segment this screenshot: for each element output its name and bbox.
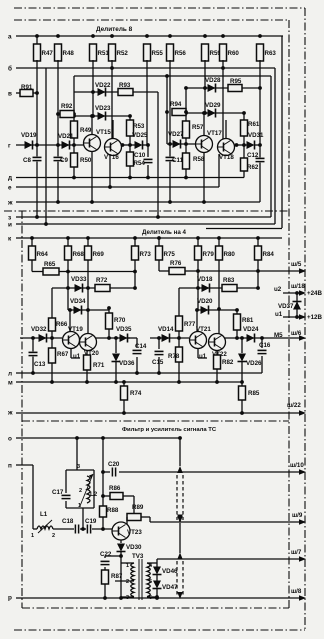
resistor R60 <box>220 44 227 61</box>
svg-text:VD21: VD21 <box>58 133 74 140</box>
diode VD24 <box>247 334 255 343</box>
diode VD32 <box>39 334 47 343</box>
bus ж horizontal <box>16 201 260 203</box>
svg-text:R70: R70 <box>114 317 126 324</box>
wire column x205 (R59 leg) <box>204 60 206 113</box>
diode VD21 <box>62 141 70 150</box>
inner dash-dot enclosure top <box>14 19 289 21</box>
svg-text:R52: R52 <box>117 50 129 57</box>
resistor R53 <box>127 120 134 136</box>
svg-text:VT17: VT17 <box>207 130 222 137</box>
svg-text:u2: u2 <box>274 286 282 293</box>
row base wire cell B <box>167 143 196 145</box>
svg-text:R47: R47 <box>42 50 54 57</box>
transistor VT22 <box>209 334 226 351</box>
resistor R73 <box>134 238 136 246</box>
svg-text:2: 2 <box>52 533 55 539</box>
svg-text:R80: R80 <box>224 251 236 258</box>
svg-text:R81: R81 <box>242 317 254 324</box>
svg-text:е: е <box>8 184 12 191</box>
svg-text:R65: R65 <box>44 261 56 268</box>
resistor R54 <box>129 145 131 152</box>
resistor R80 <box>218 238 220 246</box>
output u2 +24В line <box>283 292 301 294</box>
resistor R70 <box>108 308 110 313</box>
resistor R57 <box>183 121 190 138</box>
svg-text:VD14: VD14 <box>158 326 174 333</box>
svg-text:R75: R75 <box>164 251 176 258</box>
svg-text:VD27: VD27 <box>168 131 184 138</box>
wire VT17 emitter to ж <box>203 152 205 202</box>
node д x74 <box>72 176 76 180</box>
svg-text:R67: R67 <box>57 351 69 358</box>
resistor R74 <box>123 382 125 386</box>
wire R64 leg to R65 <box>31 260 33 272</box>
resistor R88 <box>100 506 107 517</box>
svg-text:R57: R57 <box>192 124 204 131</box>
diode VD28 <box>208 84 216 93</box>
svg-text:VD19: VD19 <box>21 132 37 139</box>
row VD33/R72 wire <box>52 287 95 289</box>
svg-text:R74: R74 <box>130 390 142 397</box>
wire row y76 to з wrap <box>74 75 271 77</box>
wire column x147 (R55 leg) <box>146 60 148 145</box>
svg-text:R56: R56 <box>175 50 187 57</box>
node bus а junction x=147 <box>145 34 149 38</box>
svg-text:R55: R55 <box>152 50 164 57</box>
svg-text:VD29: VD29 <box>205 102 221 109</box>
wire column x58 (R48 leg to ж) <box>57 60 59 202</box>
resistor R77 <box>178 288 180 316</box>
inner dash-dot enclosure left <box>21 211 23 608</box>
outer dash-dot enclosure top <box>14 7 305 9</box>
mechanical link arrow mid <box>179 523 181 553</box>
output line ш/9 <box>150 521 301 523</box>
svg-text:VT23: VT23 <box>127 529 142 536</box>
resistor R64 <box>31 238 33 246</box>
resistor R50 <box>71 153 78 167</box>
svg-text:VD20: VD20 <box>197 298 213 305</box>
wire R69 leg into VT20 collector <box>87 260 89 334</box>
svg-text:VD36: VD36 <box>119 360 135 367</box>
diode VD34 <box>74 306 82 315</box>
transistor VT23 oscillator <box>112 522 130 540</box>
wire о drop x103 <box>102 438 104 529</box>
svg-text:1: 1 <box>78 503 81 509</box>
capacitor C8 <box>33 156 42 161</box>
svg-text:VD31: VD31 <box>248 132 264 139</box>
diode VD14 <box>162 334 170 343</box>
wire о drop x180 with arrow <box>179 438 181 466</box>
svg-text:VD34: VD34 <box>70 298 86 305</box>
svg-text:з: з <box>8 214 11 221</box>
dashed coupling lines lower <box>176 561 178 595</box>
wire link VD30 to C22 branch <box>105 555 121 557</box>
bus р horizontal to ш/8 <box>16 597 301 599</box>
svg-text:R63: R63 <box>265 50 277 57</box>
wire column x46 <box>45 68 47 224</box>
wire VD35 to C14 <box>128 337 137 339</box>
inductor L1 <box>37 526 53 529</box>
svg-text:C14: C14 <box>135 343 147 350</box>
bus к horizontal (divider 4 input) <box>16 237 282 239</box>
svg-text:ш/10: ш/10 <box>290 462 304 469</box>
TV3 secondary taps <box>147 562 157 564</box>
diode VD33 <box>75 284 83 293</box>
svg-text:и: и <box>8 221 12 228</box>
diode VD26 vertical <box>241 338 243 353</box>
wire б wrap vertical right <box>274 68 276 224</box>
transistor VT17 <box>196 136 213 153</box>
resistor R51 <box>90 44 97 61</box>
wire а wrap vertical right <box>281 36 283 228</box>
node bus к junction x=88 <box>86 236 90 240</box>
svg-text:R69: R69 <box>93 251 105 258</box>
svg-text:R93: R93 <box>119 82 131 89</box>
bus з horizontal <box>16 216 271 218</box>
svg-text:ТV3: ТV3 <box>132 553 144 560</box>
svg-text:VD26: VD26 <box>246 360 262 367</box>
svg-text:п: п <box>8 462 12 469</box>
inner dash-dot enclosure right <box>288 20 290 608</box>
node bus к junction x=32 <box>30 236 34 240</box>
output line ш/5 continuation of R76 row <box>198 270 301 272</box>
node bus а junction x=205 <box>203 34 207 38</box>
wire VT21 emitter <box>197 348 199 358</box>
capacitor C20 <box>111 468 116 477</box>
svg-text:C13: C13 <box>34 361 46 368</box>
diode VD47 vertical <box>153 581 162 589</box>
resistor R52 <box>109 44 116 61</box>
svg-text:VT18: VT18 <box>219 154 234 161</box>
wire а wrap horizontal y228 <box>206 228 282 230</box>
diode VD31 <box>247 141 255 150</box>
bus а horizontal <box>16 35 283 37</box>
resistor R61 <box>241 120 248 136</box>
svg-text:C22: C22 <box>100 551 112 558</box>
svg-text:3: 3 <box>77 464 80 470</box>
diode VD27 <box>173 140 181 149</box>
svg-text:C16: C16 <box>259 342 271 349</box>
node bus а junction x=170 <box>168 34 172 38</box>
svg-text:г: г <box>8 142 11 149</box>
svg-text:ж: ж <box>7 409 13 416</box>
svg-text:u1: u1 <box>275 311 283 318</box>
wire VT16 emitter to е <box>109 154 111 187</box>
node bus а junction x=58 <box>56 34 60 38</box>
wire column x74 (R49/R50 branch) <box>73 76 75 178</box>
svg-text:C9: C9 <box>60 157 68 164</box>
diode VD35 <box>120 334 128 343</box>
resistor R65 <box>43 268 59 275</box>
wire base row y338 left cell D <box>150 337 189 339</box>
svg-text:R88: R88 <box>107 507 119 514</box>
node base x74 <box>72 143 76 147</box>
node г x58 <box>56 143 60 147</box>
svg-text:R50: R50 <box>80 157 92 164</box>
wire ш/7 column <box>156 559 158 563</box>
row VD34 wire <box>68 309 109 311</box>
wire row92 to з link column <box>157 92 159 217</box>
resistor R83 <box>222 285 237 292</box>
svg-text:+24В: +24В <box>307 290 322 297</box>
bus и horizontal <box>16 223 275 225</box>
svg-text:R95: R95 <box>230 78 242 85</box>
resistor R71 <box>86 351 88 355</box>
svg-text:R82: R82 <box>222 359 234 366</box>
resistor R58 <box>183 153 190 169</box>
svg-text:VD28: VD28 <box>205 77 221 84</box>
wire base row right VT20 <box>96 337 130 339</box>
wire column x37 (R47 leg down to з) <box>36 36 38 44</box>
diode VD37 vertical <box>296 293 298 317</box>
wire base row y338 left <box>20 337 62 339</box>
diode VD30 vertical <box>117 544 126 552</box>
diode VD18 <box>202 284 210 293</box>
svg-text:VD35: VD35 <box>116 326 132 333</box>
svg-text:R86: R86 <box>109 485 121 492</box>
outer dash-dot enclosure right <box>304 8 306 630</box>
resistor R86 <box>110 493 123 500</box>
svg-text:ш/18: ш/18 <box>291 283 305 290</box>
svg-text:R61: R61 <box>248 121 260 128</box>
wire VT16 collector <box>112 120 114 139</box>
transistor VT15 <box>84 135 101 152</box>
wire п down to L1 <box>32 465 34 529</box>
svg-text:ш/9: ш/9 <box>292 512 303 519</box>
svg-text:C15: C15 <box>152 359 164 366</box>
bus б horizontal <box>16 67 275 69</box>
svg-text:1: 1 <box>31 533 34 539</box>
svg-text:R94: R94 <box>170 101 182 108</box>
capacitor C10 <box>147 145 149 157</box>
diode VD22 <box>98 88 106 97</box>
wire VT15 emitter to ж <box>91 151 93 202</box>
svg-text:R91: R91 <box>21 84 33 91</box>
resistor R85 <box>241 382 243 386</box>
capacitor C13 <box>32 338 34 373</box>
resistor R55 <box>144 44 151 61</box>
bus ж2 / ш22 output line <box>16 412 300 414</box>
svg-text:в: в <box>8 90 12 97</box>
wire column x93 (R51 leg) <box>92 60 94 116</box>
svg-text:м: м <box>8 379 13 386</box>
wire column x260 (R63 leg) <box>259 60 261 144</box>
svg-text:R54: R54 <box>134 160 146 167</box>
diode VD19 <box>25 141 33 150</box>
svg-text:R49: R49 <box>80 127 92 134</box>
svg-text:VD18: VD18 <box>197 276 213 283</box>
svg-text:VD23: VD23 <box>95 105 111 112</box>
resistor R92 <box>58 113 60 115</box>
wire з wrap vertical right <box>270 76 272 217</box>
capacitor C16 <box>261 338 263 348</box>
svg-text:R79: R79 <box>203 251 215 258</box>
capacitor C11 <box>169 143 171 145</box>
wire VT18 collector <box>225 120 227 139</box>
svg-text:R89: R89 <box>132 504 144 511</box>
row VD18/R83 wire <box>179 287 222 289</box>
bus е horizontal <box>16 186 219 188</box>
svg-text:R72: R72 <box>96 277 108 284</box>
svg-text:R48: R48 <box>63 50 75 57</box>
svg-text:ш/8: ш/8 <box>291 588 302 595</box>
bus п stub <box>16 464 33 466</box>
svg-text:VT15: VT15 <box>96 129 111 136</box>
svg-text:VT16: VT16 <box>104 154 119 161</box>
svg-text:R77: R77 <box>184 321 196 328</box>
wire VT15 collector <box>91 116 93 135</box>
inductor L2 <box>87 476 90 503</box>
wire R61 column <box>243 113 245 120</box>
row VD23 wire <box>74 115 130 117</box>
diode VD23 <box>98 112 106 121</box>
diode VD25 <box>135 141 143 150</box>
svg-text:1: 1 <box>126 563 129 569</box>
bus л horizontal <box>16 372 262 374</box>
resistor R94 <box>172 109 186 116</box>
wire R80 leg into VT22 collector <box>218 260 220 334</box>
node VD25 row left <box>122 144 135 146</box>
output line ш/7 <box>157 558 301 560</box>
svg-text:C19: C19 <box>85 518 97 525</box>
node б x223 <box>221 66 225 70</box>
node г x37 <box>35 143 39 147</box>
resistor R89 <box>127 514 141 521</box>
transistor VT20 <box>80 334 97 351</box>
inner dash-dot enclosure bottom <box>22 607 289 609</box>
dashed coupling lines upper <box>176 475 178 520</box>
svg-text:C12: C12 <box>247 152 259 159</box>
svg-text:R78: R78 <box>168 353 180 360</box>
svg-text:VT21: VT21 <box>196 326 211 333</box>
wire column x223 (R60 leg) <box>222 60 224 139</box>
node bus а junction x=37 <box>35 34 39 38</box>
node bus а junction x=93 <box>91 34 95 38</box>
svg-text:VD24: VD24 <box>243 326 259 333</box>
svg-text:C8: C8 <box>23 157 31 164</box>
node VD31 row <box>236 144 247 146</box>
svg-text:VD37: VD37 <box>278 303 294 310</box>
transistor VT19 <box>63 332 80 349</box>
bus о horizontal <box>16 437 180 439</box>
svg-text:C10: C10 <box>134 152 146 159</box>
TV3 primary taps <box>121 562 134 564</box>
svg-text:ш/5: ш/5 <box>291 261 302 268</box>
resistor R93 <box>118 89 133 96</box>
arrow ш/5 <box>299 268 306 274</box>
svg-text:C11: C11 <box>172 157 184 164</box>
svg-text:R85: R85 <box>248 390 260 397</box>
svg-text:VD30: VD30 <box>126 544 142 551</box>
capacitor C9 <box>54 156 63 161</box>
wire R75 leg to R76 <box>158 260 160 271</box>
capacitor C14 <box>133 349 142 354</box>
svg-text:VD25: VD25 <box>132 132 148 139</box>
wire column x170 (R56 leg to ж) <box>169 60 171 202</box>
output line ш/6 М5 <box>299 335 306 341</box>
row VD29 wire <box>186 112 244 114</box>
svg-text:ш/22: ш/22 <box>287 402 301 409</box>
bus д horizontal <box>16 177 244 179</box>
svg-text:5: 5 <box>149 579 152 585</box>
node bus а junction x=260 <box>258 34 262 38</box>
resistor R78 <box>178 338 180 347</box>
node bus к junction x=258 <box>256 236 260 240</box>
svg-text:R68: R68 <box>73 251 85 258</box>
resistor R47 <box>34 44 41 61</box>
svg-text:о: о <box>8 435 12 442</box>
wire row y271.5 right cell <box>197 260 199 287</box>
row г base wire with VD19 VD21 <box>16 144 84 146</box>
node bus а junction x=112 <box>110 34 114 38</box>
resistor R81 <box>236 310 238 314</box>
wire row y271.5 <box>67 260 69 287</box>
capacitor C19 <box>86 525 91 534</box>
node bus к junction x=135 <box>133 236 137 240</box>
node bus к junction x=219 <box>217 236 221 240</box>
svg-text:R84: R84 <box>263 251 275 258</box>
row VD28/R95 wire <box>186 87 228 89</box>
wire R53 column <box>129 116 131 120</box>
resistor R68 <box>67 238 69 246</box>
wire column x112 (R52 leg) <box>111 60 113 139</box>
node base x186 <box>184 142 188 146</box>
wire x134 down to R89 <box>133 496 135 513</box>
outer dash-dot enclosure bottom <box>14 629 305 631</box>
node x88 row310 <box>86 308 90 312</box>
svg-text:р: р <box>8 594 12 601</box>
resistor R59 <box>202 44 209 61</box>
resistor R95 <box>228 85 242 92</box>
capacitor C22 <box>104 556 106 558</box>
wire VT19 emitter <box>70 348 72 358</box>
node bus к junction x=68 <box>66 236 70 240</box>
svg-text:R76: R76 <box>170 260 182 267</box>
transistor VT16 <box>105 139 122 156</box>
svg-text:ш/6: ш/6 <box>291 330 302 337</box>
resistor R63 <box>257 44 264 61</box>
svg-text:R66: R66 <box>56 321 68 328</box>
section divider chain between divider8 and divider4 <box>4 210 289 212</box>
resistor R75 <box>158 238 160 246</box>
svg-text:VD47: VD47 <box>162 584 178 591</box>
svg-text:L1: L1 <box>40 511 48 518</box>
transformer TV3 primary winding <box>131 563 134 597</box>
svg-text:Делитель 8: Делитель 8 <box>96 26 133 33</box>
resistor R69 <box>87 238 89 246</box>
diode VD20 <box>201 306 209 315</box>
wire VT23 collector <box>126 522 128 524</box>
svg-text:л: л <box>8 370 12 377</box>
svg-text:Фильтр и усилитель сигнала ТС: Фильтр и усилитель сигнала ТС <box>122 427 217 433</box>
capacitor C18 <box>74 525 79 534</box>
transformer TV3 secondary winding <box>147 563 150 597</box>
L2 tank loop <box>66 469 94 471</box>
section divider chain between divider4 and filter <box>22 420 289 422</box>
diode VD29 <box>208 109 216 118</box>
svg-text:Делитель на 4: Делитель на 4 <box>142 229 186 236</box>
wire VT21 collector <box>196 310 198 332</box>
svg-text:R64: R64 <box>37 251 49 258</box>
transformer TV3 core <box>138 559 140 600</box>
node bus к junction x=159 <box>157 236 161 240</box>
resistor R84 <box>257 238 259 246</box>
diode VD46 vertical <box>153 567 162 575</box>
resistor R82 <box>216 351 218 355</box>
resistor R79 <box>197 238 199 246</box>
bus м horizontal <box>16 381 242 383</box>
